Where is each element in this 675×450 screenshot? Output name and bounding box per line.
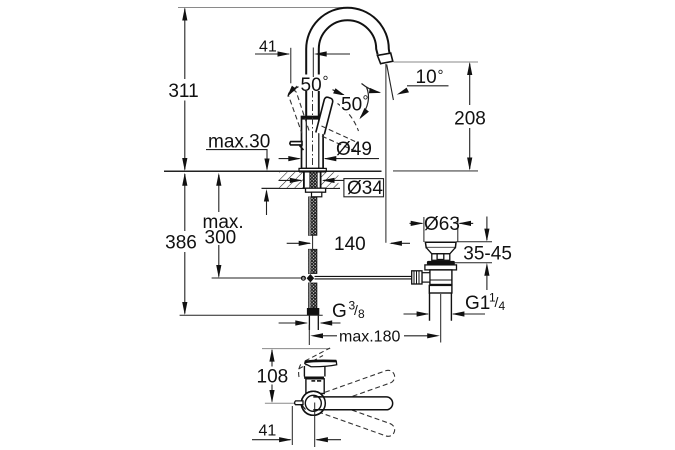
svg-text:41: 41 <box>259 423 277 440</box>
dim max.300 <box>218 175 220 277</box>
G3/8 arrows <box>279 322 307 324</box>
pull rod to drain <box>315 275 412 277</box>
drain collar <box>429 285 452 293</box>
bottom view lever tab <box>295 401 303 405</box>
collar below nut <box>312 192 322 197</box>
lever solid <box>316 97 333 134</box>
drain body <box>430 270 452 285</box>
svg-text:311: 311 <box>168 81 198 102</box>
bottom view lever blade <box>305 361 337 367</box>
ext line G3/8 level <box>180 314 323 316</box>
rod stem <box>422 273 430 282</box>
dim 208 <box>469 64 471 170</box>
dim 140 <box>287 242 310 244</box>
bottom view lever neck <box>304 366 325 377</box>
spout gooseneck <box>306 8 393 120</box>
svg-text:G1: G1 <box>465 293 490 314</box>
svg-text:G: G <box>332 301 347 322</box>
lever horn left <box>290 142 302 145</box>
dia63 ext lines <box>423 217 425 242</box>
bottom view black band <box>304 377 324 379</box>
bottom view dashed raised lever <box>299 348 331 377</box>
svg-text:Ø49: Ø49 <box>336 139 372 160</box>
aerator tip <box>377 53 392 64</box>
ext line lever top <box>262 348 330 350</box>
shank hole edges <box>303 172 305 188</box>
max.30 lower arrow <box>266 191 268 215</box>
drain tailpiece <box>430 293 452 321</box>
hose segment 1 <box>308 197 317 235</box>
10deg leader <box>407 85 449 87</box>
knurled knob <box>412 271 422 284</box>
drain black seal band <box>427 261 455 265</box>
drain washer <box>425 265 457 270</box>
50deg arc no.2 <box>361 87 369 118</box>
svg-text:140: 140 <box>334 234 366 255</box>
dim 41 bottom <box>252 439 291 441</box>
hot cold marks <box>311 380 315 382</box>
drain flange <box>425 242 456 247</box>
10deg spout axis vertical <box>385 64 387 243</box>
svg-text:208: 208 <box>454 109 486 130</box>
bottom view dashed swing bar lower <box>317 399 396 438</box>
rod eyelet <box>302 276 306 280</box>
counter hatch right <box>321 172 339 188</box>
counter bottom line <box>262 187 341 189</box>
threaded shank through counter <box>310 172 317 188</box>
drain knob <box>437 254 444 260</box>
counter top surface line <box>164 170 382 172</box>
dashed swing arc right <box>338 104 359 132</box>
drain neck <box>432 254 450 260</box>
svg-text:8: 8 <box>358 307 365 321</box>
counter surface ext right <box>393 170 478 172</box>
10deg tilted axis <box>387 65 394 101</box>
svg-text:386: 386 <box>165 233 197 254</box>
base black band <box>299 171 326 173</box>
drain cone <box>426 248 455 254</box>
ext line outlet level <box>394 61 479 63</box>
dim max180 <box>310 333 323 338</box>
body top black band <box>302 116 324 119</box>
label dia34 boxed <box>344 179 384 197</box>
svg-text:50: 50 <box>341 95 362 116</box>
centerline body <box>312 91 314 169</box>
max.30 leader <box>206 150 267 158</box>
ext line 108 bottom <box>265 402 295 404</box>
svg-text:300: 300 <box>205 228 237 249</box>
bottom view inner circle <box>305 395 321 411</box>
dim 35-45 <box>486 217 488 241</box>
label 50deg no.2 <box>340 95 371 112</box>
svg-text:4: 4 <box>499 299 506 313</box>
junction dot <box>307 274 315 283</box>
svg-text:max.180: max.180 <box>339 329 400 346</box>
ext line top of spout <box>178 7 342 9</box>
bottom view dashed swing bar upper <box>317 368 396 407</box>
svg-text:°: ° <box>323 73 329 90</box>
G3/8 fitting nut <box>307 308 319 315</box>
svg-text:10: 10 <box>416 67 437 88</box>
10deg swing arc <box>362 84 380 93</box>
svg-text:Ø63: Ø63 <box>424 214 460 235</box>
dim 108 <box>271 350 273 367</box>
bottom view spout bar <box>313 397 392 410</box>
svg-text:35-45: 35-45 <box>463 244 512 265</box>
svg-text:Ø34: Ø34 <box>347 178 383 199</box>
max180 left ext <box>308 325 310 345</box>
label 50deg no.1 <box>299 75 333 92</box>
ext line rod level <box>212 277 306 279</box>
dim 41 bottom exts <box>291 406 293 445</box>
dim 41 top <box>290 48 292 84</box>
dim 311 line <box>184 9 186 170</box>
drain pivot ellipse <box>425 276 430 279</box>
dim dia49 <box>279 158 300 160</box>
dim 386 line <box>184 174 186 314</box>
lever dashed down-right <box>321 126 359 150</box>
svg-text:°: ° <box>438 67 444 84</box>
svg-text:41: 41 <box>259 39 277 56</box>
hose segment 2 <box>308 249 317 273</box>
body base plate <box>299 168 326 171</box>
bottom view body column <box>306 379 324 394</box>
mounting nut <box>306 188 326 192</box>
G1 1/4 arrows <box>404 313 429 315</box>
hose segment 3 <box>308 283 317 308</box>
dia63 arrows <box>410 222 423 224</box>
svg-text:108: 108 <box>257 367 289 388</box>
hose centerline gap <box>312 235 314 249</box>
counter hatch left <box>279 172 304 188</box>
dim dia34 arrows <box>279 179 302 181</box>
G3/8 tailpipe <box>309 315 318 330</box>
faucet body <box>302 117 324 169</box>
bottom view body circle <box>301 391 325 415</box>
50deg arc no.1 <box>288 85 344 96</box>
drain centerline <box>440 294 442 343</box>
lever dashed up-left <box>288 80 358 151</box>
svg-text:50: 50 <box>301 75 322 96</box>
dashed swing arc left <box>294 80 312 90</box>
